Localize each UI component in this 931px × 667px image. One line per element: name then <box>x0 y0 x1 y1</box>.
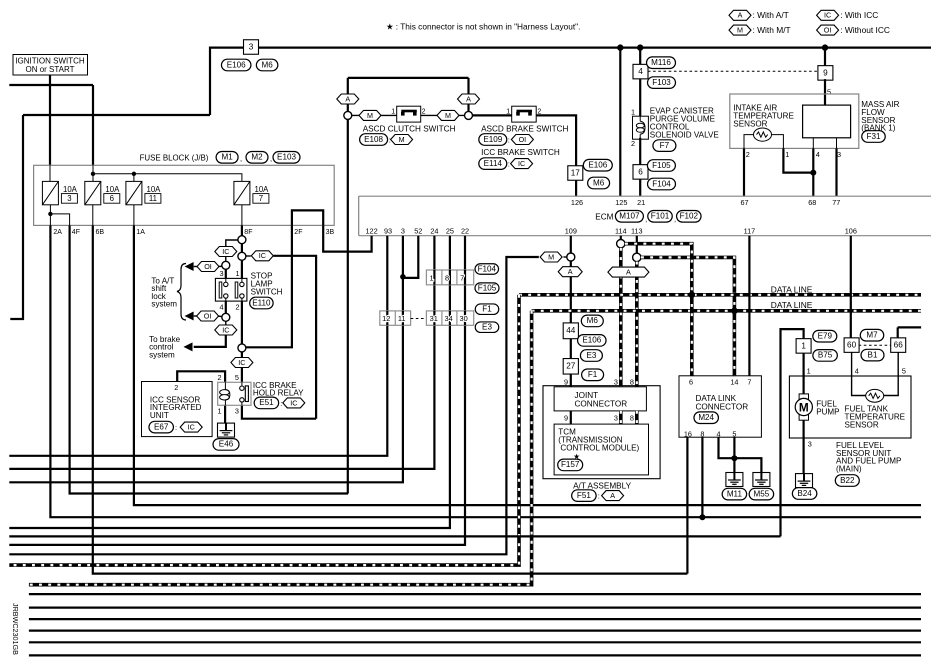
wire: box 4 to EVAP coil <box>639 79 641 116</box>
junction main bus to EVAP <box>637 44 643 50</box>
svg-text:B22: B22 <box>840 476 855 485</box>
svg-text:M1: M1 <box>221 153 233 162</box>
wire: ECM 52 joins pin 3 wire <box>403 236 418 278</box>
junction DLC pin8 on 2A bus <box>699 514 705 520</box>
data link connector box <box>679 376 761 437</box>
wire: pin 2 down to circle <box>241 301 243 344</box>
wire: bypass left drop <box>347 78 349 112</box>
svg-text:F102: F102 <box>680 212 699 221</box>
shielded wire: DATA LINE 2 horizontal <box>532 309 921 313</box>
svg-text:M6: M6 <box>587 316 599 325</box>
wire: ECM 114 to circle <box>620 236 622 240</box>
wire: circle to clutch switch <box>352 114 397 116</box>
wire: clutch switch to right circle <box>421 114 465 116</box>
wire: M branch down to left edge bus <box>9 257 539 554</box>
wire: branch to ground M55 <box>734 458 761 472</box>
svg-text:1: 1 <box>631 108 635 117</box>
wire: box 6 to ECM pin 21 <box>639 179 641 196</box>
svg-text:F7: F7 <box>660 141 670 150</box>
svg-text:9: 9 <box>823 68 828 77</box>
connector box 4 <box>633 64 648 79</box>
svg-text::: : <box>508 136 510 145</box>
svg-text:3: 3 <box>614 377 618 386</box>
wire: IC hex right to relay pin3 loop <box>273 256 316 419</box>
hexagon IC above ICC brake hold relay <box>231 358 253 368</box>
wire: branch to 4F <box>50 214 69 226</box>
connector box 17 <box>568 166 583 181</box>
connector oval M6 under box 3 <box>256 59 278 71</box>
wire: DLC pin 5 to ground M11 <box>733 437 735 472</box>
oval E110 <box>250 297 274 309</box>
shielded wire: 113 down to JC pin 8 <box>635 262 639 387</box>
svg-text:30: 30 <box>459 314 467 323</box>
svg-text:E109: E109 <box>483 135 502 144</box>
svg-text:4: 4 <box>855 367 859 376</box>
oval M6 at box 44 <box>581 315 603 327</box>
mass air flow sensor outer box <box>730 94 859 148</box>
wire: A/T bypass loop top <box>348 77 469 79</box>
svg-text:17: 17 <box>571 168 581 177</box>
svg-text:M: M <box>737 26 743 35</box>
svg-text:1: 1 <box>807 367 811 376</box>
wire: EVAP coil to box 6 <box>639 138 641 165</box>
svg-text:2: 2 <box>235 302 239 311</box>
wire: JC pin9 to TCM <box>570 411 572 424</box>
svg-text:77: 77 <box>832 198 840 207</box>
dashed connector pairing line box4 to box9 <box>648 70 818 72</box>
svg-text:F31: F31 <box>867 132 881 141</box>
connector junction circle right ASCD <box>465 111 473 119</box>
oval M6 at box 17 <box>588 177 610 189</box>
svg-text:106: 106 <box>845 227 857 236</box>
svg-text:F105: F105 <box>652 161 671 170</box>
fuse 10A no.11 <box>126 181 161 204</box>
wire: arrow to OI hexagon lower <box>194 315 198 317</box>
wire: IAT pin2 to ECM 67 <box>743 148 745 196</box>
connector circle 113 <box>633 253 641 261</box>
svg-text:E79: E79 <box>818 332 833 341</box>
oval E114 <box>479 158 507 170</box>
oval M2 <box>246 152 268 164</box>
wire: bus to ECM pin 125 <box>619 48 621 197</box>
svg-text:27: 27 <box>566 362 576 371</box>
connector box 6 <box>633 165 648 180</box>
wire: DLC pin 4 to ground junction <box>719 437 734 458</box>
svg-text:25: 25 <box>446 227 454 236</box>
svg-text:A: A <box>610 491 615 500</box>
svg-text:114: 114 <box>615 227 627 236</box>
svg-text:A: A <box>345 94 350 103</box>
svg-text:E108: E108 <box>364 135 383 144</box>
svg-text:11: 11 <box>398 314 406 323</box>
svg-text:B24: B24 <box>797 489 812 498</box>
svg-text:M: M <box>367 111 373 120</box>
wide hexagon A over data pair <box>608 267 649 277</box>
ICC sensor integrated unit box <box>142 382 213 437</box>
svg-text:2: 2 <box>631 139 635 148</box>
svg-text:117: 117 <box>744 227 756 236</box>
wire: 8F to junction circle <box>241 225 243 235</box>
legend hexagon M <box>729 25 751 35</box>
svg-text:M11: M11 <box>727 489 743 498</box>
connector circle pin2/2F junction <box>238 344 246 352</box>
svg-text:(MAIN): (MAIN) <box>836 464 862 473</box>
connector circle 8F lower <box>238 252 246 260</box>
connector junction circle left ASCD <box>344 111 352 119</box>
svg-text:M: M <box>799 400 809 414</box>
shielded wire: JC pin8 to TCM <box>635 411 639 424</box>
svg-text:7: 7 <box>259 194 263 203</box>
svg-text:E103: E103 <box>277 153 296 162</box>
oval F31 <box>862 131 886 143</box>
svg-text::: : <box>598 492 600 501</box>
svg-text:14: 14 <box>730 378 738 387</box>
svg-text:SENSOR: SENSOR <box>733 120 767 129</box>
wire: thin feed to fuse 6 <box>92 165 94 181</box>
connector circle pin 4 branch <box>222 313 230 321</box>
svg-text:4: 4 <box>716 429 720 438</box>
svg-text:2: 2 <box>537 108 541 115</box>
svg-text:M6: M6 <box>593 178 605 187</box>
wire: IC hex to circle <box>225 257 227 262</box>
oval M1 <box>216 152 238 164</box>
wire: fuse7 out to 8F <box>241 205 243 226</box>
wire: DLC pin 8 down to 2A bus <box>701 437 703 517</box>
svg-text:11: 11 <box>149 194 157 203</box>
brace grouping A/T shift lock arrows <box>177 264 186 321</box>
svg-text:3: 3 <box>614 414 618 423</box>
svg-text:ICC BRAKE SWITCH: ICC BRAKE SWITCH <box>481 148 560 157</box>
svg-text:1: 1 <box>785 150 789 159</box>
junction pins 3 and 52 <box>400 274 406 280</box>
wire: circle to switch pin 3 <box>225 269 227 278</box>
oval E3 label row <box>475 322 499 333</box>
svg-text:IC: IC <box>238 358 245 367</box>
svg-text:66: 66 <box>894 341 904 350</box>
wire: circle to M hexagon <box>563 256 567 258</box>
wire: box 27 to joint connector pin 9 <box>570 374 572 387</box>
svg-text:ASCD CLUTCH SWITCH: ASCD CLUTCH SWITCH <box>363 125 456 134</box>
svg-text:10A: 10A <box>147 185 162 194</box>
wire: left vertical x=23 down to stub y=319 <box>10 115 23 319</box>
connector row 31-34-30 (F1/E3) <box>426 311 473 325</box>
svg-text:M107: M107 <box>619 212 640 221</box>
oval F102 <box>677 211 702 223</box>
svg-text:B75: B75 <box>818 351 833 360</box>
svg-text:126: 126 <box>571 198 583 207</box>
svg-text:: With M/T: : With M/T <box>753 25 791 35</box>
junction on DATA LINE 2 (redrawn) <box>731 308 737 314</box>
svg-text:67: 67 <box>740 198 748 207</box>
wire: right circle to ASCD brake switch <box>473 114 512 116</box>
svg-text:122: 122 <box>366 227 378 236</box>
svg-text:SOLENOID VALVE: SOLENOID VALVE <box>650 131 720 140</box>
oval F104 label row <box>475 264 499 275</box>
svg-text:F157: F157 <box>561 460 580 469</box>
EVAP solenoid coil <box>633 116 649 139</box>
dashed connector pairing 60-66 <box>859 344 891 346</box>
connector circle on 109 <box>567 253 575 261</box>
svg-text:8: 8 <box>445 273 449 282</box>
svg-text:3: 3 <box>67 194 71 203</box>
wire: down to box 66 <box>897 327 899 338</box>
arrow: to A/T shift lock system (upper) <box>185 262 194 271</box>
junction on DATA LINE 2 <box>731 308 737 314</box>
oval E109 <box>479 134 507 146</box>
wire: bypass right drop <box>467 78 469 112</box>
wire: drop to fuse block from y=85 <box>92 85 94 165</box>
svg-text:OI: OI <box>824 26 832 35</box>
wire: IC hex to relay pin 5 <box>241 368 243 383</box>
svg-text:7: 7 <box>747 378 751 387</box>
svg-text:F1: F1 <box>482 305 492 314</box>
wire: 6B down, right to DLC pin16 <box>93 225 688 573</box>
svg-text:10A: 10A <box>105 185 120 194</box>
connector box 1 fuel pump <box>796 339 811 354</box>
connector row 1-8-7 (F104/F105) <box>426 270 473 285</box>
hexagon IC for E51 <box>283 398 305 408</box>
svg-text:JRBWC2301GB: JRBWC2301GB <box>11 603 20 655</box>
hexagon M for E108 <box>391 135 413 145</box>
svg-text:F51: F51 <box>577 491 591 500</box>
connector box 44 <box>563 323 578 339</box>
svg-text::: : <box>280 399 282 408</box>
hexagon OI to A/T shift lock (lower) <box>197 311 219 321</box>
wire: circle to IC hex <box>225 321 227 325</box>
wire: stub right from 66 wire <box>898 326 921 328</box>
svg-text:SENSOR: SENSOR <box>845 421 879 430</box>
svg-text:4: 4 <box>816 150 820 159</box>
wire: thermistor to IAT pin 2 <box>744 135 754 149</box>
IAT thermistor <box>754 128 772 141</box>
ignition switch box <box>13 55 88 76</box>
svg-text:system: system <box>149 350 175 359</box>
oval F105 label row <box>475 283 499 294</box>
wire: J/B internal bar to fuses 11 and 7 <box>93 174 242 182</box>
svg-text:9: 9 <box>564 377 568 386</box>
wire: circle to IC hexagon relay <box>241 352 243 358</box>
wire: ECM 25 down to left edge bus <box>9 236 450 528</box>
junction pins 1 and 4 <box>810 170 816 176</box>
svg-text:3: 3 <box>235 407 239 416</box>
stop lamp switch <box>215 278 247 301</box>
wire: ECM 113 to circle <box>636 236 638 254</box>
shielded wire: DATA LINE 1 to DLC pin 6 <box>690 295 694 376</box>
hexagon A on 109 branch <box>558 267 582 277</box>
wire: relay pin3 to IC loop <box>242 406 316 419</box>
svg-text:,: , <box>645 215 647 224</box>
svg-text:5: 5 <box>827 88 831 97</box>
svg-text:24: 24 <box>430 227 438 236</box>
svg-text:: With A/T: : With A/T <box>753 10 789 20</box>
legend hexagon IC <box>817 10 839 20</box>
svg-text:5: 5 <box>235 373 239 382</box>
svg-text:16: 16 <box>684 429 692 438</box>
wire: ECM 106 to box 60 <box>850 236 852 339</box>
svg-text:F1: F1 <box>588 370 598 379</box>
wire: circle to circle <box>241 244 243 253</box>
svg-text:12: 12 <box>382 314 390 323</box>
wire: ECM 22 down to left edge bus <box>9 236 465 545</box>
shielded wire: DATA LINE 2 to DLC pin 14 <box>733 311 737 376</box>
svg-text:3: 3 <box>219 269 223 278</box>
svg-text:IC: IC <box>222 325 229 334</box>
wire: branch left to IC hexagon <box>226 240 238 246</box>
oval M55 <box>749 488 774 500</box>
connector row 12-11 (F1/E3) <box>380 311 411 325</box>
junction on DATA LINE 1 <box>689 292 695 298</box>
svg-text:31: 31 <box>430 314 438 323</box>
wire: fuse3 out to 2A <box>49 205 51 226</box>
svg-text:: With ICC: : With ICC <box>840 10 878 20</box>
fuel tank temperature sensor thermistor <box>866 389 884 402</box>
svg-text:system: system <box>151 300 177 309</box>
svg-text:UNIT: UNIT <box>150 411 169 420</box>
svg-text:F104: F104 <box>652 179 671 188</box>
wire: bus to fuel pump box 1 <box>781 329 804 536</box>
oval E3 at box 27 <box>580 350 602 362</box>
bus wire y=619 <box>29 618 921 620</box>
svg-text:2A: 2A <box>53 229 62 236</box>
svg-text:1A: 1A <box>136 229 145 236</box>
svg-text:IC: IC <box>188 423 195 432</box>
wire: relay pin1 to ground <box>224 406 226 423</box>
svg-text:F105: F105 <box>478 283 497 292</box>
svg-text:2: 2 <box>217 373 221 382</box>
svg-text:6: 6 <box>638 167 643 176</box>
wire: MAF pin3 to ECM 77 <box>835 148 837 196</box>
svg-text:F103: F103 <box>652 78 671 87</box>
svg-text:E110: E110 <box>252 298 271 307</box>
wire: left stub feed at y=85 <box>9 84 93 86</box>
hexagon IC upper left stop lamp <box>215 247 237 257</box>
wire: ECM 93 down through connector to left edge <box>9 236 387 456</box>
oval E67 <box>149 421 174 433</box>
ASCD clutch switch contact <box>397 106 421 122</box>
bus wire y=655 <box>29 654 921 656</box>
hexagon IC right stop lamp <box>251 251 273 261</box>
connector box 3 on main bus <box>244 40 259 55</box>
svg-text::: : <box>508 160 510 169</box>
wire: box1 into fuel unit to pump motor <box>802 353 804 394</box>
svg-text:1: 1 <box>217 407 221 416</box>
wire: arrow to OI hexagon <box>194 266 198 268</box>
svg-text:93: 93 <box>384 227 392 236</box>
svg-text:E51: E51 <box>259 398 274 407</box>
ECM module strip <box>359 196 931 236</box>
oval F103 <box>648 77 676 89</box>
oval M107 <box>615 211 643 223</box>
svg-text:6: 6 <box>110 194 114 203</box>
svg-text:3: 3 <box>837 150 841 159</box>
oval B75 <box>813 350 838 362</box>
oval F104 at box 6 <box>648 178 676 190</box>
wire: thin feed to fuse 3 <box>49 165 51 181</box>
wire: OI hex to circle <box>218 265 221 267</box>
junction on J/B bar at fuse 11 <box>132 172 136 176</box>
shielded wire: 114 to DATA LINE 1 <box>625 244 692 295</box>
bus wire y=642 <box>29 641 921 643</box>
fuse 10A no.7 <box>234 181 269 204</box>
svg-text:M24: M24 <box>698 413 714 422</box>
svg-text:44: 44 <box>566 326 576 335</box>
svg-text:A/T ASSEMBLY: A/T ASSEMBLY <box>573 481 631 490</box>
oval E51 <box>254 397 279 409</box>
svg-text:8F: 8F <box>244 229 252 236</box>
ASCD brake switch contact <box>512 106 537 122</box>
wire: bus y=536 from left edge <box>9 535 780 537</box>
connector box 66 <box>891 338 906 353</box>
svg-text:F101: F101 <box>651 212 670 221</box>
hexagon IC to brake control <box>215 325 237 335</box>
svg-text:OI: OI <box>204 311 212 320</box>
joint connector box <box>554 387 646 411</box>
svg-text:M6: M6 <box>261 60 273 69</box>
wire: OI hex to circle lower <box>218 315 222 318</box>
svg-text:10A: 10A <box>63 185 78 194</box>
shielded wire: 113 to DATA LINE 2 <box>641 257 734 310</box>
oval F51 <box>572 490 597 502</box>
svg-text:M: M <box>399 135 405 144</box>
svg-text:109: 109 <box>565 227 577 236</box>
hexagon A on right bypass <box>458 94 480 104</box>
svg-text:3: 3 <box>808 439 812 448</box>
wire: thermistor to IAT pin 1 <box>772 135 784 149</box>
svg-text:IC: IC <box>290 398 297 407</box>
oval B22 <box>835 475 859 487</box>
shielded wire: JC pin3 to TCM <box>619 411 623 424</box>
redraw wires through connector row <box>434 270 465 285</box>
fuse block (J/B) outline <box>34 165 335 225</box>
svg-text::: : <box>175 423 177 432</box>
svg-text:4F: 4F <box>72 229 80 236</box>
wire: fuse6 out to 6B <box>92 205 94 226</box>
wire: IAT pin1 joins pin4 wire <box>783 148 813 172</box>
svg-text:2: 2 <box>746 150 750 159</box>
svg-text:1: 1 <box>391 108 395 115</box>
wire: DLC pin 16 down to 6B bus <box>686 437 688 573</box>
hexagon OI for E109 <box>511 135 533 145</box>
wire: ECM 117 to DLC pin 7 <box>748 236 750 376</box>
svg-text:2: 2 <box>174 383 178 392</box>
wire: 1A down and right along bus y=505 to right edge <box>134 225 921 505</box>
oval M24 <box>694 412 719 424</box>
oval F7 <box>653 140 676 152</box>
svg-text:A: A <box>738 11 743 20</box>
svg-text:IC: IC <box>824 11 831 20</box>
svg-text:21: 21 <box>637 198 645 207</box>
svg-text:34: 34 <box>444 314 452 323</box>
svg-text:M55: M55 <box>754 489 770 498</box>
svg-text:ASCD BRAKE SWITCH: ASCD BRAKE SWITCH <box>481 125 568 134</box>
junction on J/B bar at fuse 6 <box>91 172 95 176</box>
oval E79 <box>813 330 837 342</box>
svg-text:M: M <box>445 111 451 120</box>
wire: MAF pin4 to ECM 68 <box>812 148 814 196</box>
oval M11 <box>722 488 747 500</box>
legend hexagon OI <box>817 25 839 35</box>
svg-text:CONNECTOR: CONNECTOR <box>575 399 628 408</box>
svg-text:8: 8 <box>630 414 634 423</box>
svg-text:8: 8 <box>700 429 704 438</box>
shielded wire: DATA LINE 1 horizontal <box>519 293 921 297</box>
junction main bus to MAF box 9 <box>822 44 828 50</box>
wire: ECM 3 down to left edge bus <box>9 236 403 483</box>
hexagon M right of clutch switch <box>437 110 459 120</box>
wire: pin 4 down to circle <box>225 301 227 314</box>
wire: ignition switch to fuse block <box>49 75 51 165</box>
wire: pin 4 to fuel tank temp sensor <box>852 352 866 395</box>
